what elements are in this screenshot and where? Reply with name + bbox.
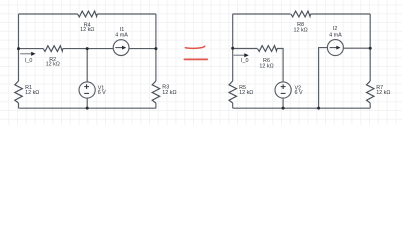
wire left circuit top wire left segment xyxy=(19,13,78,15)
junction node right edge middle left circuit xyxy=(154,47,157,50)
svg-text:12 kΩ: 12 kΩ xyxy=(376,90,390,96)
wire I2 branch vertical xyxy=(319,48,328,109)
wire middle right circuit to R6 xyxy=(233,48,258,50)
minus sign V1 xyxy=(84,92,89,94)
voltage source V1 xyxy=(79,82,95,98)
resistor R7 xyxy=(367,81,375,103)
resistor R3 xyxy=(152,81,160,103)
wire left edge upper right circuit xyxy=(232,14,234,81)
wire V1 branch top xyxy=(86,49,88,82)
wire right edge lower right circuit xyxy=(369,103,371,108)
wire right circuit top wire right segment xyxy=(311,13,371,15)
svg-text:12 kΩ: 12 kΩ xyxy=(239,90,253,96)
wire left edge upper (node A) xyxy=(18,14,20,81)
resistor R2 xyxy=(43,46,63,52)
svg-text:4 mA: 4 mA xyxy=(329,33,342,39)
svg-text:12 kΩ: 12 kΩ xyxy=(80,27,94,33)
wire right circuit top wire left segment xyxy=(233,13,291,15)
red annotation approx-equal lower stroke xyxy=(184,58,207,60)
junction node I2 branch bottom xyxy=(317,107,320,110)
arrow inside I2 xyxy=(330,46,341,50)
arrow inside I1 xyxy=(115,46,126,50)
plus sign V1 xyxy=(84,84,89,89)
resistor R4 xyxy=(78,11,98,17)
wire left edge lower xyxy=(18,103,20,108)
junction node V1 top xyxy=(86,47,89,50)
wire left edge lower right circuit xyxy=(232,103,234,108)
minus sign V2 xyxy=(281,92,286,94)
wire right edge lower left circuit xyxy=(155,103,157,108)
arrow I_0 annotation left xyxy=(20,52,35,56)
junction node right circuit left edge middle xyxy=(231,47,234,50)
svg-text:12 kΩ: 12 kΩ xyxy=(46,62,60,68)
wire bottom right circuit xyxy=(233,107,371,109)
wire V1 branch bottom xyxy=(86,98,88,108)
wire bottom left circuit xyxy=(19,107,156,109)
resistor R6 xyxy=(257,46,277,52)
svg-text:12 kΩ: 12 kΩ xyxy=(162,90,176,96)
current source I2 xyxy=(327,40,343,56)
red annotation approx-equal upper stroke xyxy=(185,46,205,48)
svg-text:I_0: I_0 xyxy=(25,58,33,64)
wire I2 to right edge xyxy=(343,47,370,49)
current source I1 xyxy=(113,40,129,56)
svg-text:4 mA: 4 mA xyxy=(115,32,128,38)
svg-text:6 V: 6 V xyxy=(295,90,303,96)
junction node V2 bottom xyxy=(282,107,285,110)
svg-text:12 kΩ: 12 kΩ xyxy=(259,63,273,69)
junction node left edge middle xyxy=(17,47,20,50)
wire left circuit top wire right segment xyxy=(97,13,156,15)
svg-text:6 V: 6 V xyxy=(98,90,106,96)
wire middle left segment to R2 xyxy=(19,48,44,50)
resistor R5 xyxy=(229,81,237,103)
wire middle from R2 to I1 xyxy=(63,48,113,50)
svg-text:I2: I2 xyxy=(333,26,338,32)
svg-text:I_0: I_0 xyxy=(241,58,249,64)
svg-text:12 kΩ: 12 kΩ xyxy=(293,27,307,33)
wire middle from I1 to right edge xyxy=(129,48,156,50)
junction node right circuit right edge middle xyxy=(369,47,372,50)
wire right edge upper left circuit xyxy=(155,14,157,81)
plus sign V2 xyxy=(281,84,286,89)
voltage source V2 xyxy=(275,82,291,98)
wire right edge upper right circuit xyxy=(369,14,371,81)
svg-text:12 kΩ: 12 kΩ xyxy=(25,90,39,96)
wire R6 to corner down to V2 xyxy=(277,49,283,82)
resistor R8 xyxy=(291,11,311,17)
arrow I_0 annotation right xyxy=(234,53,249,57)
wire V2 bottom xyxy=(282,98,284,108)
resistor R1 xyxy=(15,81,22,103)
junction node V1 bottom xyxy=(86,107,89,110)
